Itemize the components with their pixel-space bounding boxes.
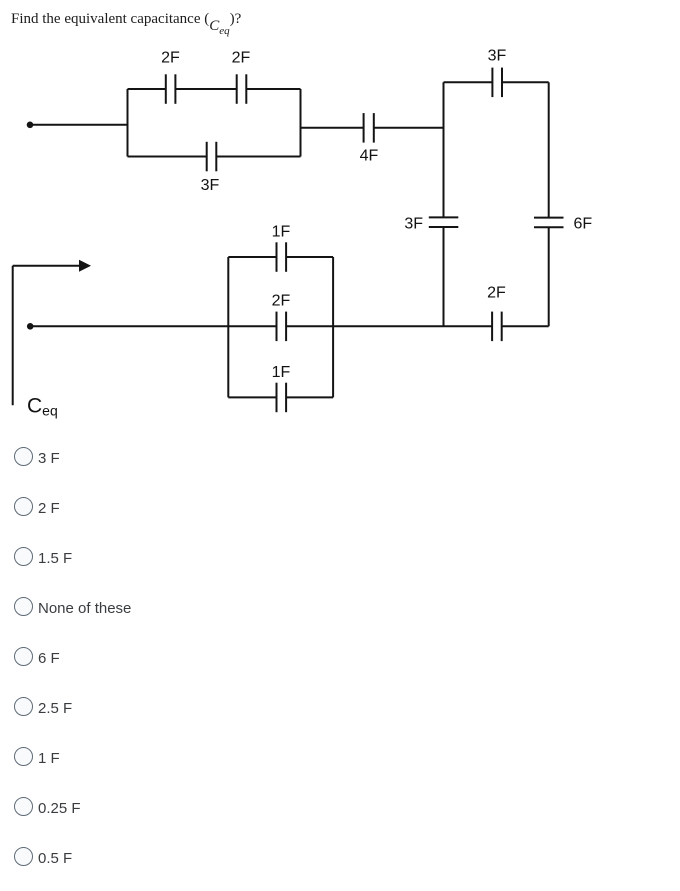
svg-text:2F: 2F [487,285,506,302]
wire: Ceq arrow vertical [12,266,14,405]
wire: Ceq arrow horizontal [13,265,80,267]
svg-text:2F: 2F [161,50,180,67]
wire: box1 left edge [127,89,129,157]
svg-text:1F: 1F [272,223,291,240]
wire: capacitor 4F to right box left rail [374,127,444,129]
wire: left terminal to parallel box 1 [30,124,128,126]
svg-text:Ceq: Ceq [27,395,58,419]
wire: box1 right edge to capacitor 4F [301,127,364,129]
answer option: 2.5 F [0,691,680,741]
wire: middle box left edge [227,257,229,397]
wire: box1 top segment 3 [246,88,300,90]
capacitor 1F (top branch of middle box) [277,242,287,271]
svg-text:1F: 1F [272,364,291,381]
wire: box1 top segment 2 [175,88,236,90]
wire: middle box 2F to right box 2F [286,325,492,327]
wire: middle box right edge [332,257,334,397]
wire: right box left rail lower part [443,227,445,326]
capacitor 2F (first, top branch of box1) [166,74,176,104]
Ceq arrowhead [79,260,91,272]
capacitor 3F (bottom branch of box1) [207,142,217,172]
svg-text:3F: 3F [488,48,507,65]
wire: right box right rail upper part [548,82,550,217]
capacitor 6F (right rail, horizontal plates) [534,218,564,228]
capacitor 4F (series link) [364,113,374,143]
wire: right box right rail lower part [548,227,550,326]
wire: middle box bottom segment 2 [286,396,333,398]
answer option: 0.5 F [0,841,680,891]
answer option: 2 F [0,491,680,541]
svg-text:2F: 2F [232,50,251,67]
capacitor 2F (bottom of right box) [492,312,502,342]
svg-text:3F: 3F [201,177,220,194]
capacitor 2F (second, top branch of box1) [237,74,247,104]
answer option: 6 F [0,641,680,691]
wire: middle box top segment 2 [286,256,333,258]
capacitor 1F (bottom branch of middle box) [277,383,287,413]
wire: middle box bottom segment 1 [228,396,276,398]
wire: box1 top segment 1 [128,88,166,90]
wire: bottom main wire from dot to middle box 2F capacitor [30,325,276,327]
svg-text:6F: 6F [574,216,593,233]
wire: box1 right edge [300,89,302,157]
answer option: None of these [0,591,680,641]
answer option: 1 F [0,741,680,791]
svg-text:2F: 2F [272,293,291,310]
capacitor 2F (middle branch of middle box) [277,312,287,342]
wire: box1 bottom segment 2 [216,156,300,158]
node B (lower input terminal dot) [27,323,34,330]
wire: box1 bottom segment 1 [128,156,207,158]
svg-text:4F: 4F [360,148,379,165]
node A (left input terminal dot) [27,122,34,129]
capacitor 3F (left rail, horizontal plates) [429,217,459,227]
capacitor 3F (top of right box) [492,68,502,98]
wire: right box top segment 1 [444,81,493,83]
answer option: 3 F [0,441,680,491]
wire: middle box top segment 1 [228,256,276,258]
svg-text:3F: 3F [404,216,423,233]
answer option: 1.5 F [0,541,680,591]
wire: right box bottom segment 2 [502,325,549,327]
wire: right box left rail upper part [443,82,445,217]
answer option: 0.25 F [0,791,680,841]
wire: right box top segment 2 [502,81,549,83]
